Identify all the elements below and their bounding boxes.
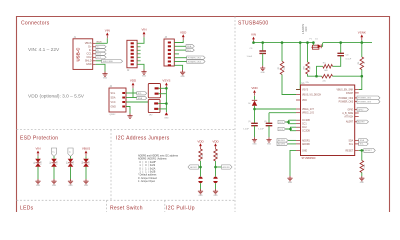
wire VBUS rail left	[254, 42, 315, 44]
ground below J2	[141, 70, 146, 78]
power flag VIN STUSB	[251, 33, 256, 43]
wire diode to rail	[321, 43, 322, 47]
svg-text:SDA: SDA	[187, 45, 192, 48]
wire JP1 pin2	[159, 93, 167, 95]
connector J2 7-pin header	[127, 40, 137, 72]
power flag VIN ESD	[35, 147, 40, 157]
wire RESET	[359, 149, 364, 151]
wire R5 right to R6 column	[333, 75, 362, 77]
divider LEDs/Reset	[106, 200, 108, 212]
resistor R5 pull-up	[199, 149, 203, 161]
label SDA at J4	[137, 96, 147, 99]
svg-text:A_B_SIDE: A_B_SIDE	[342, 112, 353, 115]
svg-text:22k: 22k	[306, 82, 309, 84]
svg-text:GPIO: GPIO	[358, 109, 364, 111]
svg-text:GND: GND	[164, 117, 169, 119]
junction C3 rail	[339, 41, 342, 44]
ground R7	[359, 176, 364, 184]
svg-text:ADDR1: ADDR1	[190, 166, 198, 169]
svg-text:ADDR0: ADDR0	[223, 166, 231, 169]
wire ESD D1 top	[37, 156, 39, 159]
connector J1 USB-C	[73, 37, 93, 70]
wire R7 to gnd	[361, 173, 363, 177]
label ADDR1 at IC	[277, 139, 288, 143]
label ADDR0	[222, 165, 233, 169]
svg-text:D4: D4	[82, 162, 84, 164]
wire VDD down to J4 row	[132, 88, 134, 97]
ground below J1 wires	[102, 72, 107, 80]
pins U1 left stubs	[296, 89, 301, 91]
svg-text:GND: GND	[198, 195, 203, 197]
svg-text:SCL: SCL	[111, 92, 116, 95]
wire jumper ADDR0 to gnd	[215, 183, 217, 189]
wire JP2 pin2	[158, 108, 166, 110]
solder jumper pads ADDR1	[198, 177, 202, 184]
wire CC2 tag to pins	[286, 127, 297, 129]
svg-text:D-: D-	[97, 50, 100, 52]
label SCL at J3	[186, 49, 194, 52]
junction R6/R5	[361, 75, 364, 78]
label CC2	[96, 56, 106, 59]
svg-text:GND: GND	[288, 182, 293, 184]
label POWER_OK2 at J3	[187, 56, 205, 60]
label ALERT	[357, 120, 369, 124]
svg-text:22k: 22k	[323, 80, 326, 82]
wire ESD D4 top	[85, 156, 87, 159]
svg-text:GND: GND	[84, 185, 89, 187]
wire zener down to C4	[254, 106, 256, 124]
wire VSNK drop	[361, 40, 363, 42]
svg-text:Connectors: Connectors	[21, 21, 50, 27]
resistor R7 100k	[360, 161, 364, 173]
wire J3 GND down	[174, 65, 182, 70]
wire VDD to J3 pin 1	[174, 40, 183, 42]
svg-text:CC2: CC2	[302, 127, 307, 129]
svg-text:1.0uF: 1.0uF	[243, 128, 249, 130]
resistor R4 1M0	[323, 65, 333, 69]
svg-text:POWER_OK3: POWER_OK3	[339, 101, 354, 103]
svg-text:VIN: VIN	[141, 28, 146, 32]
wire J3 pin4 stub	[174, 53, 179, 55]
svg-text:D3: D3	[67, 162, 69, 164]
label D- tag ESD	[68, 148, 73, 156]
wire CC1DB branch	[289, 119, 297, 121]
section frame outer box	[17, 17, 390, 213]
wire C5 bottom	[268, 126, 270, 138]
power flag VDD STUSB	[251, 86, 258, 96]
label D-	[96, 49, 106, 52]
TVS diode D2	[51, 159, 57, 167]
wire J4 VCC to JP2	[126, 102, 149, 104]
ground U1	[287, 176, 292, 184]
wire J4 GND down	[126, 107, 130, 114]
connector J3 7-pin header	[164, 37, 174, 67]
wire C1 bottom	[262, 53, 264, 65]
note I2C address table	[138, 155, 179, 184]
resistor R3 100k	[306, 62, 310, 74]
svg-text:1: Jumper Open: 1: Jumper Open	[138, 180, 156, 183]
svg-text:ALERT: ALERT	[346, 121, 354, 124]
resistor R5 22k	[322, 74, 333, 78]
junction RESET	[361, 149, 364, 152]
svg-text:SCL: SCL	[349, 144, 354, 146]
svg-text:ADDR1: ADDR1	[302, 139, 311, 142]
resistor R2 1M	[280, 61, 284, 74]
label D+	[96, 45, 106, 48]
ground D2	[51, 179, 56, 187]
svg-text:(1): (1)	[248, 121, 251, 123]
wire J3 pin5 to label	[174, 57, 186, 59]
wire C3 bottom to R4	[333, 56, 341, 67]
wire ESD D2 top	[53, 156, 55, 159]
svg-text:DISCH: DISCH	[346, 93, 353, 95]
wire R3 top	[307, 43, 309, 62]
svg-text:D2: D2	[50, 162, 52, 164]
svg-text:ALERT: ALERT	[358, 121, 365, 124]
ground D4	[83, 179, 88, 187]
svg-text:Reset Switch: Reset Switch	[110, 206, 143, 212]
capacitor C5	[266, 123, 273, 125]
TVS diode D4	[83, 159, 89, 167]
svg-text:10k: 10k	[202, 154, 204, 157]
svg-text:SHLD/SBU: SHLD/SBU	[103, 61, 114, 63]
power flag VIN (VBUS row)	[105, 29, 110, 39]
wire VBUS rail right	[323, 42, 372, 44]
wire J4 SDA	[126, 97, 137, 99]
label ADDR1	[188, 165, 199, 169]
wire J3 pin3 to label	[174, 49, 186, 51]
junction CC1	[287, 121, 290, 124]
svg-text:CC1: CC1	[302, 124, 307, 126]
ground C1	[260, 66, 265, 74]
svg-text:VSNK: VSNK	[358, 30, 366, 34]
jumper JP2	[148, 99, 160, 116]
ground below J4	[127, 114, 132, 119]
power flag VSNK	[358, 30, 366, 40]
svg-text:VDD: VDD	[251, 86, 258, 90]
label POWER_OK2	[357, 96, 380, 100]
svg-text:ESD Protection: ESD Protection	[20, 136, 58, 142]
svg-text:VBUS: VBUS	[82, 147, 90, 151]
power flag VDD at J3	[180, 30, 187, 40]
svg-text:VIN: 4.1 – 22V: VIN: 4.1 – 22V	[28, 47, 60, 53]
wire J2 GND pin down	[137, 64, 144, 69]
wire J3 pin2 to label	[174, 45, 186, 47]
wire ESD D1 bottom	[37, 167, 39, 179]
svg-text:VSYS: VSYS	[302, 89, 309, 91]
ground D3	[68, 179, 73, 187]
wire ESD D3 top	[70, 156, 72, 159]
svg-text:GND: GND	[252, 143, 257, 145]
svg-text:POWER_OK3: POWER_OK3	[188, 61, 202, 63]
wire JP1 pin1 to VSYS	[159, 87, 167, 89]
jumper JP1	[148, 84, 160, 103]
wire GND row down	[96, 64, 105, 71]
label ADDR0 at IC	[277, 142, 288, 146]
wire VBUS row	[96, 42, 108, 44]
power flag VIN at J2	[141, 28, 146, 38]
svg-text:100k: 100k	[364, 164, 366, 168]
wire U1 GND down	[290, 150, 296, 176]
ground D1	[35, 179, 40, 187]
wire R6 to VBUS_EN_SNK pin	[359, 70, 362, 90]
wire JP2 pin1	[158, 103, 166, 105]
wire rail to VSYS pin	[296, 43, 300, 90]
wire RESET to R7	[361, 150, 363, 160]
svg-text:1k: 1k	[364, 62, 366, 64]
wire ESD D4 bottom	[85, 167, 87, 179]
wire J4 SCL	[126, 92, 137, 94]
divider ESD/I2C-Address	[110, 130, 112, 201]
svg-text:(2): (2)	[264, 121, 267, 123]
label CC1	[96, 52, 106, 55]
wire ADDR1 to pin	[288, 139, 296, 141]
pins J2 right stubs	[137, 46, 141, 48]
svg-text:GND: GND	[360, 182, 365, 184]
fuse F1 polyfuse	[310, 39, 320, 50]
svg-text:0.1uF: 0.1uF	[346, 59, 352, 61]
svg-text:POWER_OK2: POWER_OK2	[339, 98, 354, 100]
svg-text:STUSB4500: STUSB4500	[238, 21, 269, 27]
svg-text:SDA: SDA	[111, 96, 116, 99]
svg-text:GPIO: GPIO	[347, 109, 353, 111]
wire ADDR0 to pin	[288, 143, 296, 145]
label CC1	[278, 120, 286, 124]
power flag VDD addr ADDR0	[212, 139, 219, 149]
diode D1	[315, 39, 321, 49]
wire R5 to jumper	[200, 161, 202, 177]
svg-text:VDD: VDD	[302, 100, 307, 102]
TVS diode D3	[68, 159, 74, 167]
ground C5	[266, 137, 271, 145]
svg-text:VDD: VDD	[197, 139, 204, 143]
label SDA	[359, 139, 369, 143]
svg-text:GND: GND	[36, 185, 41, 187]
connector J4 I2C 4-pin	[109, 86, 126, 112]
wire VIN to VBUS row	[106, 38, 108, 43]
divider bottom sections	[17, 199, 236, 201]
junction VREG_2V7 net	[253, 108, 256, 111]
label GPIO	[357, 108, 369, 112]
label SDA at J3	[186, 45, 194, 48]
op IC U1 STUSB4500	[301, 82, 355, 160]
pins U1 right stubs	[355, 89, 359, 91]
svg-text:D6: D6	[248, 103, 250, 105]
junction ADDR1	[199, 166, 202, 169]
wire C4 bottom	[254, 126, 256, 138]
svg-text:POWER_OK3: POWER_OK3	[358, 101, 372, 103]
label RESET	[364, 149, 376, 153]
wire VIN drop	[253, 41, 255, 43]
junction R3 rail	[306, 41, 309, 44]
svg-text:GND: GND	[86, 63, 92, 66]
svg-text:GND: GND	[111, 105, 117, 108]
pins J1 right stubs	[93, 42, 96, 44]
svg-text:SDA: SDA	[348, 139, 353, 142]
svg-text:STUSB4500: STUSB4500	[302, 157, 317, 160]
wire SHLD row	[96, 60, 102, 62]
ground C4	[252, 137, 257, 145]
svg-text:USB-C: USB-C	[76, 47, 81, 62]
capacitor C1	[259, 51, 266, 53]
svg-text:D-: D-	[69, 151, 71, 153]
svg-text:10k: 10k	[217, 154, 219, 157]
ground below J3	[180, 70, 185, 78]
wire to VREG_1V2 pin	[269, 112, 296, 114]
divider Reset/I2C-PullUp	[164, 200, 166, 212]
svg-text:RESET: RESET	[365, 150, 373, 152]
svg-text:VDD (optional): 3.0 – 5.5V: VDD (optional): 3.0 – 5.5V	[28, 94, 85, 100]
svg-text:1.0uF: 1.0uF	[258, 128, 264, 130]
svg-text:I2C Pull-Up: I2C Pull-Up	[166, 206, 195, 212]
svg-text:GND: GND	[213, 195, 218, 197]
wire J3 pin6 to label	[174, 61, 186, 63]
wire jumper ADDR1 to gnd	[200, 183, 202, 189]
divider Connectors/STUSB4500	[234, 17, 236, 213]
svg-text:VREG_1V2: VREG_1V2	[302, 113, 315, 115]
svg-text:VCC: VCC	[111, 101, 116, 104]
wire R2 top	[281, 43, 283, 62]
svg-text:VIN: VIN	[35, 147, 40, 151]
svg-text:GND: GND	[52, 185, 57, 187]
svg-text:CC1DB: CC1DB	[302, 120, 310, 122]
svg-text:VDD: VDD	[212, 139, 219, 143]
svg-text:1M0: 1M0	[284, 66, 286, 70]
power flag VDD bottom row	[130, 79, 137, 89]
wire CC1 tag to pins	[286, 122, 297, 124]
ground ADDR1	[198, 189, 203, 197]
svg-text:100k: 100k	[303, 66, 305, 70]
svg-text:VDD: VDD	[180, 30, 187, 34]
svg-text:ATTACH: ATTACH	[344, 115, 353, 118]
label POWER_OK3	[357, 100, 380, 104]
junction VSYS/JP2	[165, 102, 168, 105]
resistor R6 1k	[360, 57, 364, 70]
svg-text:QWIIC: QWIIC	[110, 114, 117, 116]
svg-text:VBUS_VS_DISCH: VBUS_VS_DISCH	[302, 94, 321, 96]
wire CC1 split	[288, 120, 290, 124]
svg-text:LEDs: LEDs	[20, 206, 34, 212]
solder jumper pads ADDR0	[213, 177, 217, 184]
wire C3 top	[340, 43, 342, 54]
junction R2 rail	[281, 41, 284, 44]
ground red flag below VSYS column	[165, 112, 168, 115]
junction R4/R5	[315, 75, 318, 78]
capacitor C4	[251, 123, 258, 125]
svg-text:GND: GND	[103, 78, 108, 80]
junction fuse rail	[312, 41, 315, 44]
resistor R6 pull-up	[214, 149, 218, 161]
power flag VSYS bottom row	[162, 79, 170, 89]
label SHLD	[102, 60, 123, 64]
wire R2 to VBUS_VS_DISCH pin	[282, 75, 296, 95]
power flag VBUS ESD	[82, 147, 90, 157]
ground ADDR0	[213, 189, 218, 197]
svg-text:2m0: 2m0	[305, 26, 308, 31]
svg-text:ADDR0: ADDR0	[278, 143, 286, 146]
TVS diode D1	[35, 159, 41, 167]
svg-text:1.0uF: 1.0uF	[247, 56, 253, 58]
svg-text:VSYS: VSYS	[162, 79, 170, 83]
wire VSYS vertical	[165, 88, 167, 112]
svg-text:ADDR0: ADDR0	[302, 143, 311, 146]
svg-text:GND: GND	[302, 150, 307, 152]
svg-text:SDA: SDA	[360, 139, 365, 142]
wire ESD D3 bottom	[70, 167, 72, 179]
label SCL	[359, 142, 369, 146]
wire R3 bottom to R5	[308, 74, 322, 76]
wire R6 top	[361, 43, 363, 57]
svg-text:R6: R6	[358, 62, 360, 64]
svg-text:VDD: VDD	[130, 79, 137, 83]
svg-text:I2C Address Jumpers: I2C Address Jumpers	[116, 136, 170, 142]
svg-text:GND: GND	[180, 76, 185, 78]
label D+ tag ESD	[51, 148, 56, 156]
label POWER_OK3 at J3	[187, 60, 205, 64]
junction VSYS rail	[299, 41, 302, 44]
junction VIN rail	[252, 41, 255, 44]
wire C1 top	[262, 43, 264, 51]
svg-text:GND: GND	[261, 72, 266, 74]
wire CC2DB branch	[291, 127, 297, 131]
svg-text:VIN: VIN	[105, 29, 110, 33]
power flag VDD addr ADDR1	[197, 139, 204, 149]
svg-text:R2: R2	[278, 67, 280, 69]
svg-text:CC2DB: CC2DB	[302, 131, 310, 133]
svg-text:ADDR1: ADDR1	[278, 139, 286, 142]
wire R6 to jumper	[215, 161, 217, 177]
svg-text:GND: GND	[142, 76, 147, 78]
zener diode D6	[248, 100, 257, 106]
wire R4 left down	[317, 66, 323, 76]
label SCL at J4	[137, 92, 147, 95]
junction VSNK rail	[361, 41, 364, 44]
label CC2	[278, 127, 286, 131]
svg-text:R3: R3	[310, 67, 312, 69]
wire VDD to zener	[254, 96, 256, 100]
divider Connectors/ESD	[17, 129, 236, 131]
svg-text:SDA: SDA	[138, 97, 143, 100]
wire ESD D2 bottom	[53, 167, 55, 179]
wire VIN to J2 pin 1	[137, 37, 144, 43]
svg-text:POWER_OK2: POWER_OK2	[358, 98, 372, 100]
wire to VREG_2V7 pin	[255, 108, 297, 110]
svg-text:GND: GND	[267, 143, 272, 145]
svg-text:VBUS_EN_SNK: VBUS_EN_SNK	[336, 89, 353, 91]
svg-text:VREG_2V7: VREG_2V7	[302, 109, 315, 111]
wire ADDR1 tag	[199, 166, 201, 168]
svg-text:GND: GND	[68, 185, 73, 187]
junction ADDR0	[214, 166, 217, 169]
junction C1 rail	[261, 41, 264, 44]
svg-text:VIN: VIN	[251, 33, 256, 37]
svg-text:RESET: RESET	[346, 150, 354, 152]
capacitor C3	[337, 53, 344, 55]
junction CC2	[289, 128, 292, 131]
wire C5 top	[268, 113, 270, 124]
wire fuse drop	[312, 43, 314, 46]
wire ADDR0 tag	[216, 166, 222, 168]
svg-text:POWER_OK2: POWER_OK2	[188, 58, 202, 60]
svg-text:D1: D1	[34, 162, 36, 164]
junction VSYS/JP1	[165, 87, 168, 90]
